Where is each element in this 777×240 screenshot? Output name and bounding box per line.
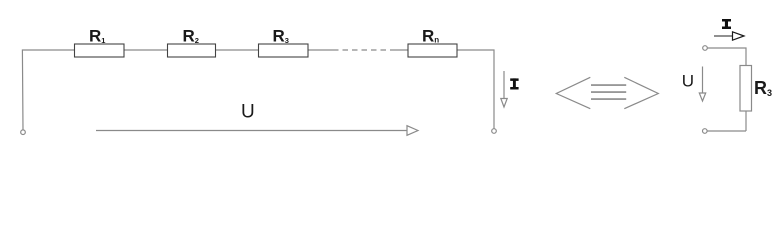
svg-text:R1: R1 (89, 27, 105, 46)
svg-text:R3: R3 (754, 78, 772, 98)
svg-text:Rn: Rn (422, 27, 439, 46)
svg-text:R2: R2 (183, 27, 199, 46)
svg-text:U: U (682, 72, 694, 91)
svg-text:R3: R3 (273, 27, 289, 46)
svg-text:U: U (241, 102, 255, 123)
